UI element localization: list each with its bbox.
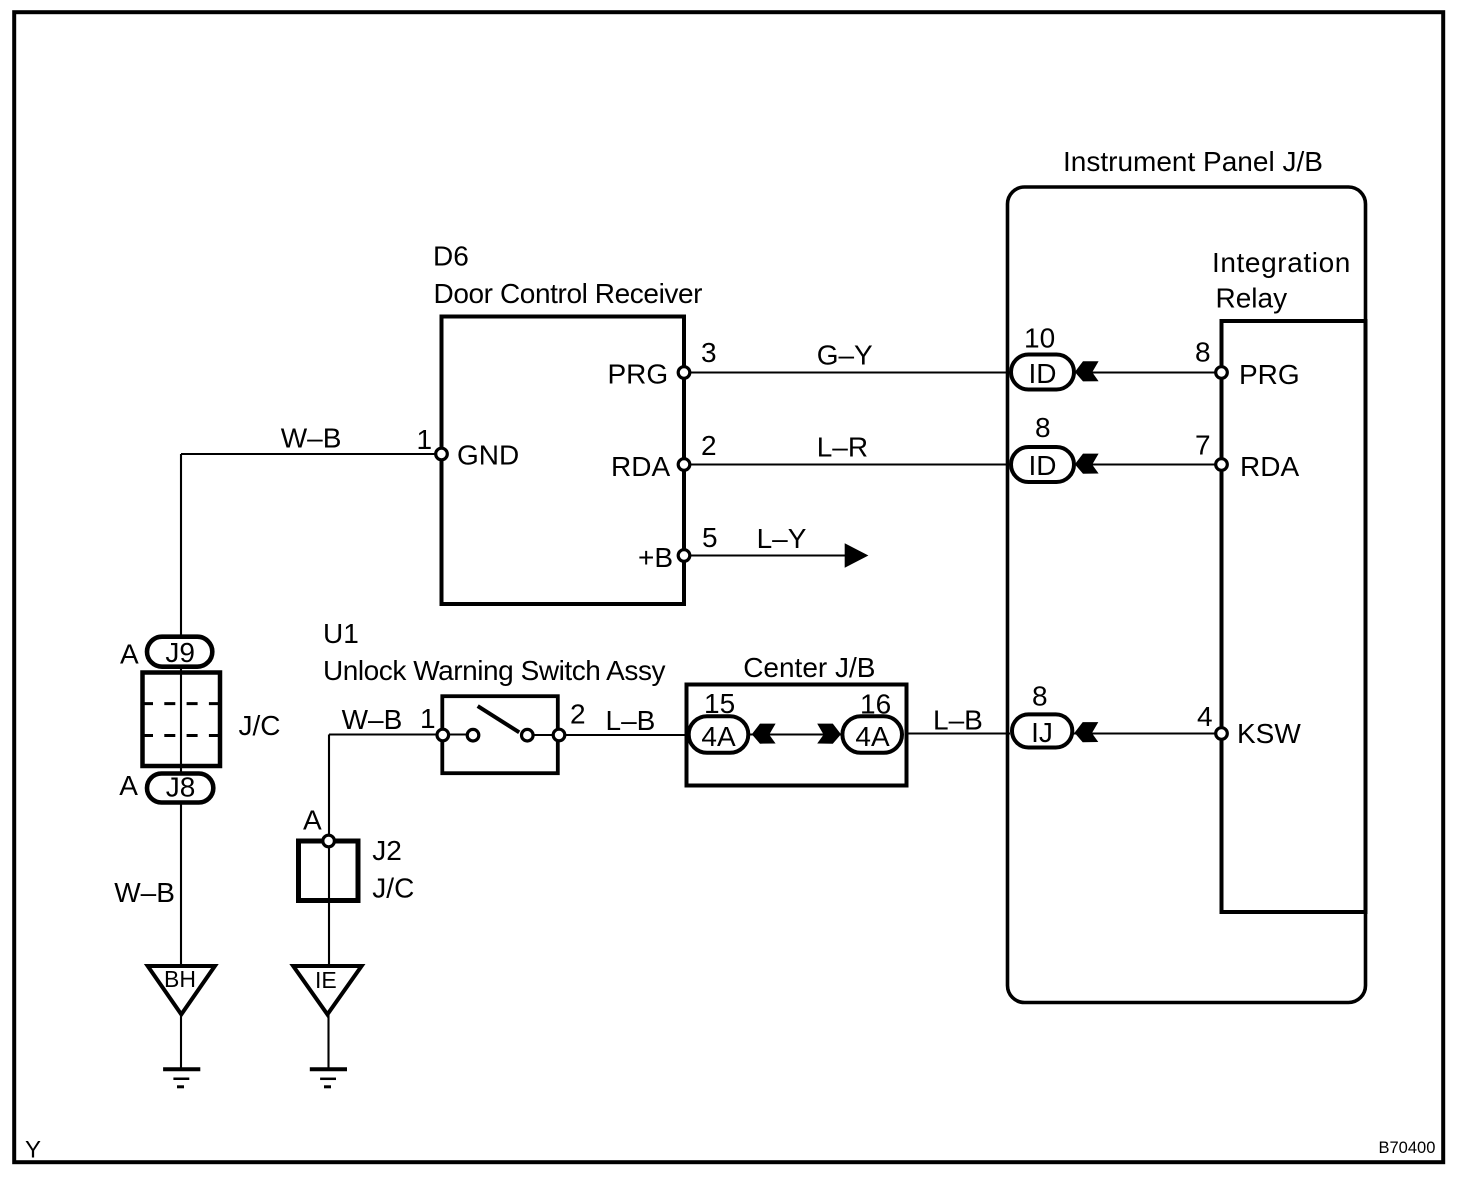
- dashed line row 1: [142, 702, 220, 705]
- svg-text:W–B: W–B: [342, 704, 403, 735]
- svg-text:Unlock Warning Switch Assy: Unlock Warning Switch Assy: [323, 655, 665, 686]
- svg-text:J2: J2: [372, 835, 402, 866]
- svg-text:ID: ID: [1029, 358, 1057, 389]
- component U1 Unlock Warning Switch box: [442, 696, 558, 773]
- svg-text:2: 2: [570, 699, 586, 730]
- wire switch pole right to pin 2: [527, 734, 687, 736]
- ground symbol IE: [310, 1067, 347, 1071]
- arrow into IJ (concave chevron pointing left): [1075, 722, 1099, 742]
- wire from ID connector to relay pin 7: [1076, 463, 1222, 465]
- svg-text:1: 1: [420, 703, 436, 734]
- switch pin 1: [437, 729, 449, 741]
- svg-text:PRG: PRG: [608, 359, 669, 390]
- svg-text:U1: U1: [323, 618, 359, 649]
- svg-text:J/C: J/C: [239, 710, 281, 741]
- svg-text:3: 3: [701, 337, 717, 368]
- relay pin 4: [1216, 728, 1228, 740]
- svg-text:A: A: [120, 639, 139, 670]
- component D6 Door Control Receiver box: [442, 317, 685, 605]
- svg-text:5: 5: [702, 522, 718, 553]
- component Integration Relay box: [1222, 321, 1366, 912]
- connector 4A (pin 15): [689, 716, 749, 753]
- wire G-Y from D6 pin 3 to ID connector: [684, 371, 1010, 373]
- svg-text:A: A: [303, 805, 322, 836]
- wire W-B vertical down to J9: [180, 454, 182, 640]
- connector J8: [147, 774, 213, 803]
- relay pin 7: [1216, 459, 1228, 471]
- svg-text:8: 8: [1032, 680, 1048, 711]
- switch contact right: [522, 729, 534, 741]
- ground triangle BH: [148, 966, 215, 1014]
- svg-text:16: 16: [860, 689, 891, 720]
- wire W-B vertical down to J2: [328, 735, 330, 968]
- connector IJ (pin 8): [1012, 714, 1072, 747]
- component Instrument Panel J/B box: [1008, 187, 1366, 1003]
- junction block J2 J/C box: [299, 841, 359, 901]
- wire from IJ connector to relay pin 4: [1074, 732, 1222, 734]
- svg-text:4A: 4A: [855, 721, 890, 752]
- svg-text:G–Y: G–Y: [817, 340, 873, 371]
- svg-text:7: 7: [1195, 430, 1211, 461]
- wire through J/C column J9 to J8: [180, 651, 182, 787]
- svg-text:Center J/B: Center J/B: [743, 652, 875, 683]
- svg-text:10: 10: [1024, 323, 1055, 354]
- pin D6-2 RDA: [678, 459, 690, 471]
- arrow L-Y (solid right-pointing): [845, 543, 869, 568]
- svg-text:2: 2: [701, 430, 717, 461]
- switch contact left: [467, 729, 479, 741]
- arrow into 4A-16 (concave chevron pointing right): [817, 724, 841, 744]
- svg-text:1: 1: [417, 424, 433, 455]
- wire W-B from J8 down to BH triangle: [180, 787, 182, 967]
- dashed line row 2: [142, 734, 220, 737]
- svg-text:Instrument Panel J/B: Instrument Panel J/B: [1063, 146, 1323, 177]
- svg-text:L–R: L–R: [817, 432, 868, 463]
- svg-text:L–B: L–B: [933, 705, 983, 736]
- svg-text:D6: D6: [433, 241, 469, 272]
- pin D6-3 PRG: [678, 367, 690, 379]
- connector J9: [147, 637, 212, 667]
- svg-text:Door Control Receiver: Door Control Receiver: [434, 278, 703, 309]
- arrow into 4A-15 (concave chevron pointing left): [752, 724, 776, 744]
- junction block J/C box: [143, 673, 221, 767]
- wire W-B horizontal from GND pin to left corner: [181, 453, 442, 455]
- svg-text:IE: IE: [315, 967, 337, 993]
- svg-text:BH: BH: [164, 966, 196, 992]
- svg-text:B70400: B70400: [1379, 1139, 1436, 1157]
- component Center J/B box: [687, 685, 907, 786]
- svg-text:J9: J9: [165, 637, 195, 668]
- svg-text:4: 4: [1197, 701, 1213, 732]
- ground triangle IE: [293, 966, 361, 1014]
- wire from IE apex to ground: [327, 1014, 329, 1069]
- connector 4A (pin 16): [842, 716, 902, 753]
- svg-text:8: 8: [1035, 412, 1051, 443]
- wire L-R from D6 pin 2 to ID connector: [684, 463, 1010, 465]
- ground symbol BH: [163, 1067, 200, 1071]
- svg-text:ID: ID: [1029, 450, 1057, 481]
- relay pin 8: [1216, 367, 1228, 379]
- connector ID (pin 10): [1011, 355, 1074, 390]
- svg-text:RDA: RDA: [611, 451, 670, 482]
- svg-text:A: A: [119, 770, 138, 801]
- svg-text:RDA: RDA: [1240, 451, 1299, 482]
- svg-text:IJ: IJ: [1031, 717, 1053, 748]
- wire from ID connector to relay pin 8: [1076, 371, 1222, 373]
- wire from BH apex to ground: [180, 1014, 182, 1069]
- wire from 4A-16 to IJ connector: [905, 732, 1010, 734]
- svg-text:L–Y: L–Y: [757, 523, 807, 554]
- svg-text:+B: +B: [638, 542, 673, 573]
- svg-text:Relay: Relay: [1216, 283, 1288, 314]
- switch pin 2: [553, 729, 565, 741]
- wire W-B into switch pin 1: [329, 733, 473, 735]
- svg-text:GND: GND: [457, 440, 519, 471]
- svg-text:Integration: Integration: [1212, 247, 1351, 278]
- wire L-Y from D6 pin 5: [684, 554, 846, 556]
- wire between 4A connectors: [750, 733, 841, 735]
- svg-text:W–B: W–B: [114, 877, 175, 908]
- svg-text:8: 8: [1195, 337, 1211, 368]
- junction circle A on J2: [323, 835, 335, 847]
- switch lever: [478, 706, 520, 732]
- svg-text:Y: Y: [25, 1137, 41, 1164]
- svg-text:4A: 4A: [701, 721, 736, 752]
- svg-text:L–B: L–B: [606, 705, 656, 736]
- svg-text:J/C: J/C: [372, 873, 414, 904]
- svg-text:15: 15: [704, 688, 735, 719]
- pin D6-1 GND: [436, 448, 448, 460]
- arrow into ID (concave chevron pointing left): [1075, 361, 1099, 381]
- svg-text:KSW: KSW: [1237, 718, 1301, 749]
- svg-text:PRG: PRG: [1239, 359, 1300, 390]
- svg-text:W–B: W–B: [281, 422, 342, 453]
- arrow into ID lower (concave chevron pointing left): [1075, 454, 1099, 474]
- svg-text:J8: J8: [166, 772, 196, 803]
- pin D6-5 +B: [678, 550, 690, 562]
- connector ID (pin 8): [1011, 447, 1074, 482]
